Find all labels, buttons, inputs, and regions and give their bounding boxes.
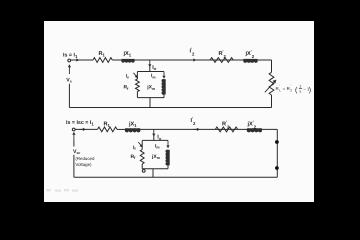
input terminal node (top circuit) xyxy=(68,59,71,62)
resistor Rf (bottom circuit) xyxy=(140,150,144,165)
wire xyxy=(141,164,143,169)
wire xyxy=(135,59,272,61)
resistor R1 (bottom circuit) xyxy=(98,127,118,132)
resistor R'2 (rotor) xyxy=(210,58,233,63)
wire (parallel branch bottom, bottom circuit) xyxy=(142,168,168,170)
wire xyxy=(149,66,151,72)
inductor jX1 (bottom circuit) xyxy=(125,128,140,130)
resistor R'2 (bottom circuit) xyxy=(215,127,237,132)
wire xyxy=(71,59,93,61)
resistor Rf (core loss) xyxy=(136,79,140,92)
wire (branch to bottom return) xyxy=(152,169,154,178)
svg-text:s: s xyxy=(299,90,301,94)
wire (left, bottom circuit) xyxy=(73,155,75,177)
wire (branch to bottom) xyxy=(149,98,151,108)
current arrow I1 (bottom) xyxy=(79,128,83,130)
junction dot (upper) xyxy=(275,140,279,144)
wire xyxy=(136,92,138,98)
svg-text:2: 2 xyxy=(290,88,292,92)
inductor jX'2 (bottom circuit) xyxy=(247,128,262,130)
svg-text:R1: R1 xyxy=(99,51,106,58)
wire (parallel branch top) xyxy=(137,71,164,73)
resistor R1 (stator) xyxy=(93,58,112,63)
wire (left, top circuit) xyxy=(68,84,70,108)
wire xyxy=(271,60,273,72)
inductor jX'2 (rotor leakage reactance) xyxy=(244,59,258,61)
resistor R'L (variable load) xyxy=(269,72,274,95)
svg-text:R1: R1 xyxy=(104,122,111,129)
current arrow I0 (bottom) xyxy=(153,129,155,134)
wire xyxy=(153,135,155,140)
terminal circle at branch bottom-left xyxy=(142,170,145,173)
wire (parallel branch top, bottom circuit) xyxy=(142,139,168,141)
wire xyxy=(136,72,138,80)
svg-text:Voltage): Voltage) xyxy=(75,162,92,167)
wire (parallel branch bottom) xyxy=(137,97,164,99)
wire xyxy=(117,128,125,130)
svg-text:L: L xyxy=(279,88,281,92)
decorative scan smudge xyxy=(46,189,78,192)
svg-text:): ) xyxy=(309,86,311,94)
wire (bottom return, top circuit) xyxy=(69,107,271,109)
svg-text:Io: Io xyxy=(152,65,157,71)
inductor jXm (bottom circuit) xyxy=(168,150,170,166)
wire xyxy=(140,128,277,130)
variable-resistor arrow xyxy=(265,82,275,93)
wire xyxy=(163,95,165,98)
source polarity arrow Vsc xyxy=(73,134,75,140)
wire xyxy=(141,140,143,149)
wire xyxy=(271,95,273,108)
inductor jX1 (stator leakage reactance) xyxy=(122,59,135,61)
wire (bottom return, bottom circuit) xyxy=(74,176,277,178)
wire xyxy=(167,165,169,168)
source polarity arrow Vs xyxy=(68,67,70,74)
input terminal node (bottom circuit) xyxy=(72,128,75,131)
value label R'L = R'2(1/s - 1) xyxy=(276,84,312,94)
svg-text:Is = Isc = I1: Is = Isc = I1 xyxy=(66,120,94,127)
wire (right vertical, shorted rotor) xyxy=(276,129,278,177)
current arrow I0 xyxy=(149,60,151,65)
svg-text:(Reduced: (Reduced xyxy=(75,156,95,161)
junction dot (lower) xyxy=(275,166,279,170)
wire xyxy=(75,128,97,130)
svg-text:Is = I1: Is = I1 xyxy=(63,53,78,60)
svg-text:1: 1 xyxy=(299,85,301,89)
wire xyxy=(112,59,121,61)
current arrow I1 xyxy=(73,59,77,61)
svg-text:Io: Io xyxy=(157,135,162,141)
wire xyxy=(73,141,75,147)
inductor jXm (magnetizing reactance) xyxy=(164,79,166,94)
